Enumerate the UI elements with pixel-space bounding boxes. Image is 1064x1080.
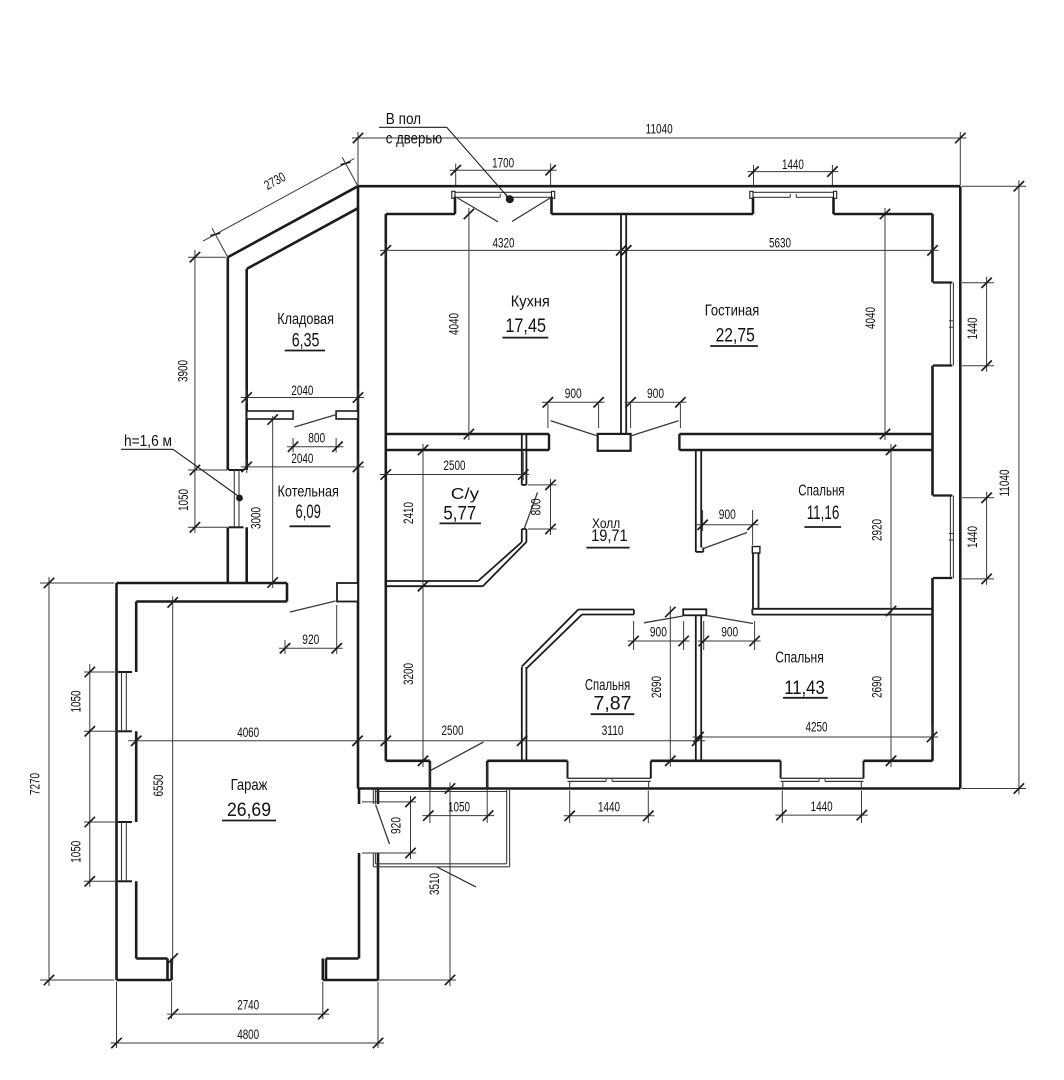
svg-text:Кладовая: Кладовая — [277, 311, 334, 328]
svg-text:800: 800 — [529, 498, 544, 515]
svg-text:2690: 2690 — [649, 676, 664, 698]
svg-text:2410: 2410 — [401, 502, 416, 524]
svg-text:С/у: С/у — [451, 486, 479, 503]
svg-text:26,69: 26,69 — [227, 799, 271, 821]
svg-text:Гостиная: Гостиная — [705, 303, 760, 320]
svg-text:2500: 2500 — [442, 723, 464, 738]
svg-text:2690: 2690 — [870, 676, 885, 698]
svg-text:2740: 2740 — [237, 998, 259, 1013]
svg-text:4800: 4800 — [237, 1027, 259, 1042]
svg-text:11040: 11040 — [646, 122, 673, 137]
svg-text:1050: 1050 — [176, 489, 191, 511]
svg-text:900: 900 — [721, 624, 738, 639]
svg-text:6,09: 6,09 — [296, 501, 321, 523]
svg-text:В пол: В пол — [386, 111, 421, 128]
svg-text:1440: 1440 — [811, 799, 833, 814]
svg-text:6550: 6550 — [151, 775, 166, 797]
svg-text:1440: 1440 — [782, 157, 804, 172]
svg-text:5,77: 5,77 — [443, 503, 476, 525]
svg-text:Кухня: Кухня — [511, 293, 550, 310]
svg-text:4040: 4040 — [863, 307, 878, 329]
svg-text:с дверью: с дверью — [386, 131, 442, 148]
svg-text:2500: 2500 — [444, 458, 466, 473]
svg-text:2040: 2040 — [291, 451, 313, 466]
svg-text:7270: 7270 — [28, 773, 43, 795]
svg-text:800: 800 — [308, 430, 325, 445]
svg-text:17,45: 17,45 — [505, 315, 546, 337]
svg-text:3110: 3110 — [602, 723, 624, 738]
svg-text:Спальня: Спальня — [775, 650, 824, 667]
svg-text:4040: 4040 — [447, 313, 462, 335]
svg-text:19,71: 19,71 — [591, 527, 628, 545]
svg-text:2920: 2920 — [870, 519, 885, 541]
svg-text:4060: 4060 — [237, 725, 259, 740]
svg-text:6,35: 6,35 — [292, 330, 320, 352]
svg-text:4320: 4320 — [493, 235, 515, 250]
svg-text:22,75: 22,75 — [716, 325, 755, 347]
svg-text:3900: 3900 — [176, 360, 191, 382]
svg-text:1440: 1440 — [965, 318, 980, 340]
svg-text:4250: 4250 — [806, 720, 828, 735]
svg-text:3000: 3000 — [249, 507, 264, 529]
svg-text:2040: 2040 — [291, 383, 313, 398]
svg-text:1050: 1050 — [69, 841, 84, 863]
svg-text:Гараж: Гараж — [231, 777, 268, 794]
svg-text:7,87: 7,87 — [594, 693, 632, 715]
svg-text:900: 900 — [565, 386, 582, 401]
svg-text:11040: 11040 — [997, 470, 1012, 497]
svg-text:900: 900 — [650, 624, 667, 639]
svg-text:5630: 5630 — [769, 235, 791, 250]
svg-text:920: 920 — [389, 817, 404, 834]
svg-text:3510: 3510 — [427, 873, 442, 895]
svg-text:1050: 1050 — [448, 799, 470, 814]
svg-text:1700: 1700 — [492, 156, 514, 171]
svg-text:11,16: 11,16 — [807, 502, 840, 524]
svg-text:1440: 1440 — [598, 800, 620, 815]
svg-text:h=1,6 м: h=1,6 м — [124, 433, 172, 450]
svg-text:1440: 1440 — [965, 526, 980, 548]
svg-text:Спальня: Спальня — [798, 482, 844, 499]
svg-text:900: 900 — [647, 386, 664, 401]
svg-text:Спальня: Спальня — [585, 677, 630, 694]
svg-text:920: 920 — [302, 632, 319, 647]
svg-text:1050: 1050 — [69, 691, 84, 713]
svg-text:3200: 3200 — [401, 663, 416, 685]
svg-text:11,43: 11,43 — [784, 677, 825, 699]
svg-text:Котельная: Котельная — [278, 483, 339, 500]
svg-text:2730: 2730 — [262, 169, 288, 193]
svg-text:900: 900 — [719, 507, 736, 522]
